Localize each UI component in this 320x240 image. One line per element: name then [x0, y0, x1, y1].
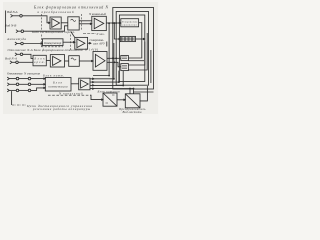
short leader vertical: [106, 42, 108, 47]
mesh junction dots: [109, 75, 110, 76]
leader line under A2: [83, 33, 96, 35]
dashed group box G1 left edge: [40, 14, 42, 31]
wire M1 to A4: [46, 59, 50, 61]
svg-text:Отклонение N-А Блок формирова: Отклонение N-А Блок формирования отклоне…: [8, 47, 83, 52]
svg-text:Отклонения: Отклонения: [7, 72, 23, 76]
wire terminal 5 to M1: [18, 61, 33, 63]
amp A6 box: [79, 78, 90, 90]
wire C1 to C2: [117, 99, 125, 101]
terminal 8: [7, 89, 9, 92]
svg-text:Вид N-В: Вид N-В: [5, 24, 16, 28]
dash-dot leader to caption: [12, 104, 27, 106]
wire w4: [150, 50, 152, 83]
amp A3 box: [75, 37, 88, 49]
junction dots: [112, 58, 113, 59]
wire M3 to A6: [71, 83, 79, 85]
hatched block H: [120, 36, 135, 41]
diagonal wire into A3 top: [71, 32, 75, 38]
wire into C1: [90, 95, 103, 99]
svg-text:N смещения: N смещения: [23, 72, 41, 76]
wire from terminal 3 into commutator K: [23, 43, 42, 45]
wire w2 from H out down to box B: [128, 42, 144, 65]
C2 out wire: [140, 86, 147, 101]
commutator box K: [43, 39, 64, 46]
converter C2: [125, 94, 140, 108]
wire stub right of box A: [128, 60, 144, 62]
right inner box R3: [119, 15, 144, 82]
svg-text:В 14(б): В 14(б): [85, 47, 98, 51]
svg-text:ция АРУ: ция АРУ: [93, 42, 106, 46]
junction dots on A2 output wire: [109, 23, 110, 24]
svg-text:коммутации: коммутации: [49, 85, 69, 89]
svg-text:и преобразований: и преобразований: [38, 9, 74, 14]
dashed wire bottom left to C1: [48, 94, 90, 96]
text box TB: [121, 19, 139, 27]
wire H out: [136, 38, 145, 40]
converter C1: [103, 93, 117, 106]
wire A1 to S1: [61, 22, 68, 24]
amp A3 triangle: [77, 39, 85, 48]
amp A4 box: [50, 55, 64, 67]
box M3: Блок коммутации: [45, 78, 71, 92]
A6 output 4: [90, 88, 134, 90]
amp A2 triangle: [94, 18, 104, 29]
wire A2 out to text box TB: [106, 22, 121, 24]
wire terminal 8 to M3 with jog: [31, 88, 46, 91]
terminal 7: [7, 83, 9, 86]
wire from terminal 2 to box S1: [24, 26, 68, 31]
amp A2 box (N канальный): [92, 16, 107, 30]
amp A5 triangle: [95, 54, 105, 67]
svg-text:Блок дистанционных перекл.: Блок дистанционных перекл.: [31, 30, 75, 34]
A6 output 2: [90, 71, 119, 83]
terminal 3: [15, 42, 17, 45]
S1 waveform mark: [71, 19, 76, 21]
A6 output 3: [90, 71, 123, 86]
wire terminal 4 to M1: [23, 54, 33, 58]
A5 output wire to box B: [107, 62, 121, 67]
wire terminal 7 to M3: [31, 83, 46, 85]
symbol box S1: [68, 17, 79, 30]
wire TB out down to box A: [128, 23, 141, 58]
small box A: [121, 56, 129, 61]
terminal 5: [10, 61, 12, 64]
wire A3 out: [88, 42, 91, 44]
terminal 4: [15, 53, 17, 56]
svg-text:Вид N-А: Вид N-А: [7, 10, 18, 14]
symbol box S2: [69, 56, 80, 67]
wire into H from bus: [114, 23, 120, 39]
svg-text:N кан.: N кан.: [96, 33, 105, 36]
C2 top feeds: [129, 89, 131, 94]
wire A4 to S2: [65, 60, 69, 62]
svg-text:режимами работы аппаратуры: режимами работы аппаратуры: [32, 107, 90, 111]
svg-text:сравнения: сравнения: [122, 24, 137, 27]
arrowhead into A1: [48, 22, 50, 24]
extra mesh line: [93, 23, 109, 75]
svg-text:врем.: врем.: [34, 61, 45, 64]
wire w3: [128, 33, 147, 70]
dashed group box G2 left edge: [40, 35, 42, 47]
A5 output wire to box A: [107, 57, 121, 59]
right mid box R2: [116, 12, 148, 86]
svg-text:N канальный: N канальный: [58, 91, 83, 96]
wire terminal 6 to M3: [31, 78, 46, 80]
box M1: [33, 55, 46, 66]
svg-text:Коммутатор: Коммутатор: [43, 41, 62, 45]
branch down from terminal 8 wire: [11, 91, 13, 105]
wire S2 to A5: [79, 60, 93, 62]
wire y92: [134, 91, 154, 93]
terminal 6: [7, 77, 9, 80]
amp A1 box: [50, 17, 61, 29]
small box B: [121, 64, 129, 71]
dashed group box G2 bottom edge: [41, 46, 63, 48]
svg-text:Блок формирования отклонений N: Блок формирования отклонений N: [33, 4, 109, 9]
dashed group box G1 right edge: [81, 14, 83, 31]
wire K out to amp A3: [63, 41, 75, 43]
paper background: [0, 0, 159, 120]
svg-text:N канальный: N канальный: [88, 11, 106, 16]
amp A1 triangle: [52, 19, 60, 28]
svg-text:Вид N-А: Вид N-А: [5, 56, 17, 60]
left bracket line: [5, 11, 7, 34]
A6 output 1: [90, 43, 114, 79]
svg-text:Вид-частота: Вид-частота: [123, 110, 143, 114]
svg-text:Амплитуда: Амплитуда: [6, 37, 26, 41]
wire from terminal 1 to amp A1: [22, 16, 50, 23]
terminal 1: [11, 14, 13, 17]
svg-text:Блок комм.: Блок комм.: [42, 74, 64, 78]
S2 waveform mark: [71, 58, 76, 60]
amp A6 triangle: [81, 80, 89, 88]
dashed group box G2 right edge: [70, 35, 72, 51]
wires S1 to A2: [79, 20, 92, 22]
right outer box R1: [113, 8, 154, 90]
amp A4 triangle: [53, 56, 61, 65]
amp A5 box: [93, 52, 107, 71]
terminal 2: [16, 30, 18, 33]
